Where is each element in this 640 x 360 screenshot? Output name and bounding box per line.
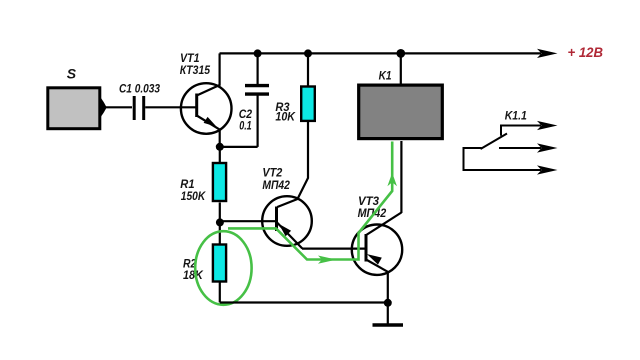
K1.1 arrowhead top bbox=[537, 121, 558, 130]
svg-text:+ 12В: + 12В bbox=[568, 45, 604, 60]
transistor VT3 emitter stroke bbox=[366, 260, 388, 272]
transistor VT3 collector stroke bbox=[366, 213, 401, 236]
svg-text:S: S bbox=[67, 65, 77, 81]
sensor S bbox=[48, 88, 100, 129]
svg-text:10K: 10K bbox=[275, 109, 296, 123]
wire: node B to VT2 base bbox=[220, 220, 277, 222]
transistor VT2 body bbox=[262, 196, 312, 246]
resistor R2 bbox=[213, 245, 226, 282]
node A junction dot bbox=[216, 143, 224, 151]
node B junction dot bbox=[216, 218, 224, 226]
wire: node B to R2 top bbox=[219, 222, 221, 245]
svg-text:МП42: МП42 bbox=[262, 178, 290, 192]
wire: C2 top to rail bbox=[257, 53, 259, 84]
transistor VT1 base bar bbox=[195, 94, 198, 118]
transistor VT3 base bar bbox=[365, 234, 368, 262]
node C junction dot bbox=[384, 299, 392, 307]
transistor VT2 emitter stroke bbox=[277, 223, 302, 249]
ground stem bbox=[387, 303, 389, 324]
wire: C1 to VT1 base bbox=[145, 106, 196, 108]
sensor S terminal bump bbox=[101, 98, 107, 118]
svg-text:K1.1: K1.1 bbox=[505, 109, 527, 123]
wire: R3 bottom to VT2 collector bbox=[277, 121, 308, 207]
transistor VT1 emitter stroke bbox=[197, 116, 220, 130]
wire: VT3 emitter drop to node C bbox=[387, 272, 389, 304]
transistor VT2 base bar bbox=[275, 207, 278, 232]
transistor VT1 body bbox=[181, 83, 232, 134]
wire: node A to C2 bottom bbox=[220, 146, 258, 148]
svg-text:K1: K1 bbox=[379, 68, 392, 82]
wire: R2 bottom to bottom rail bbox=[219, 282, 221, 303]
capacitor C2 plates bbox=[245, 84, 269, 87]
wire: R1 bottom to node B bbox=[219, 203, 221, 224]
transistor VT1 emitter arrow bbox=[204, 117, 217, 127]
green arrow up bbox=[387, 173, 397, 186]
wire: VT1 collector riser to rail bbox=[219, 53, 221, 85]
wire: +12V top rail bbox=[220, 52, 542, 54]
relay contact K1.1 blade bbox=[481, 134, 508, 150]
wire: VT3 collector riser to K1 bbox=[400, 141, 402, 213]
svg-text:КТ315: КТ315 bbox=[180, 63, 210, 77]
relay contact K1.1 middle throw bbox=[499, 147, 541, 149]
highlight ellipse around R2 bbox=[195, 231, 251, 305]
resistor R1 bbox=[213, 163, 226, 201]
green signal path bbox=[228, 142, 392, 260]
wire: bottom rail to node C bbox=[220, 301, 388, 303]
junction dot rail-C2 bbox=[254, 49, 262, 57]
wire: rail to R3 top bbox=[307, 53, 309, 87]
wire: VT2 emitter to VT3 base bbox=[302, 248, 366, 250]
junction dot rail-K1 bbox=[396, 49, 405, 58]
wire: VT1 emitter drop bbox=[219, 129, 221, 148]
transistor VT3 emitter arrow bbox=[367, 254, 382, 265]
transistor VT3 body bbox=[352, 225, 402, 275]
capacitor C1 plates bbox=[133, 96, 136, 120]
relay contact K1.1 top throw bbox=[501, 126, 541, 136]
svg-text:C1 0.033: C1 0.033 bbox=[119, 82, 160, 96]
green arrow right bbox=[318, 256, 336, 264]
wire: S to C1 bbox=[104, 106, 132, 108]
transistor VT2 emitter arrow bbox=[279, 224, 291, 236]
svg-text:18K: 18K bbox=[183, 268, 204, 282]
svg-text:0.1: 0.1 bbox=[239, 119, 252, 133]
relay contact K1.1 common pole bbox=[464, 148, 542, 170]
wire: rail to K1 top bbox=[400, 53, 402, 84]
ground bar bbox=[373, 323, 404, 326]
K1.1 arrowhead bottom bbox=[537, 165, 558, 174]
transistor VT1 collector stroke bbox=[197, 85, 220, 96]
rail arrowhead bbox=[537, 49, 558, 58]
relay coil K1 bbox=[359, 85, 443, 139]
junction dot rail-R3 bbox=[304, 49, 312, 57]
wire: C2 bottom riser bbox=[257, 96, 259, 147]
K1.1 arrowhead middle bbox=[537, 143, 558, 152]
svg-text:150K: 150K bbox=[181, 189, 207, 203]
resistor R3 bbox=[301, 87, 315, 121]
wire: node A to R1 top bbox=[219, 147, 221, 164]
